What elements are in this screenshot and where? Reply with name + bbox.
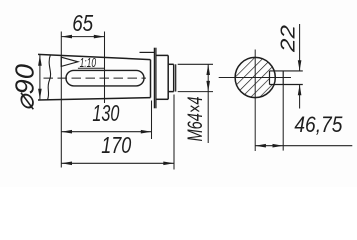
taper symbol triangle xyxy=(61,57,78,66)
shaft side view outline xyxy=(38,48,176,109)
thread top xyxy=(168,63,174,65)
arrow 22 down xyxy=(298,60,302,71)
thread dia extension bottom xyxy=(178,91,213,93)
svg-text:22: 22 xyxy=(277,25,299,53)
arrow M64 down xyxy=(206,81,210,92)
keyway top edge + extension xyxy=(270,70,303,72)
arrow 46,75 left xyxy=(255,144,266,148)
dim 22 line upper xyxy=(299,24,301,71)
centerline vertical end view xyxy=(254,50,256,152)
taper underline xyxy=(78,67,105,69)
wire: step line above washer xyxy=(140,51,155,53)
thread dia extension top xyxy=(178,63,213,65)
dim 22 line lower xyxy=(299,85,301,109)
extension 46,75 keyway edge down xyxy=(282,85,284,151)
washer disc xyxy=(153,48,155,109)
wire: break line xyxy=(48,55,51,100)
arrow 130 right xyxy=(141,130,152,134)
arrow 22 up xyxy=(298,85,302,96)
keyway slot on cone xyxy=(44,70,147,86)
centerline horizontal end view xyxy=(219,77,291,79)
wire: cone end face xyxy=(150,60,152,98)
dim line 130 xyxy=(61,131,151,133)
arrow phi90 down xyxy=(38,89,42,100)
nut section bottom xyxy=(156,98,168,100)
extension 130 right xyxy=(151,101,153,140)
arrow 170 left xyxy=(61,162,72,166)
arrow 65 right xyxy=(94,35,105,39)
arrow 65 left xyxy=(61,35,72,39)
arrow 46,75 right xyxy=(273,144,284,148)
arrow M64 up xyxy=(206,64,210,75)
svg-text:130: 130 xyxy=(92,100,119,126)
extension 170 right xyxy=(173,95,175,170)
nut section top xyxy=(156,54,168,56)
dim line phi90 xyxy=(39,55,41,99)
svg-text:1:10: 1:10 xyxy=(80,56,97,70)
end view circle hatched xyxy=(235,57,275,97)
arrows left view xyxy=(38,35,210,165)
wire: cone bottom edge xyxy=(38,98,151,100)
dim line 65 xyxy=(61,36,104,38)
keyway hidden dashed line xyxy=(44,77,147,79)
end view circle outline xyxy=(235,57,275,97)
svg-text:46,75: 46,75 xyxy=(294,112,342,137)
chamfer line xyxy=(175,64,177,91)
keyway slot outline xyxy=(66,70,144,86)
keyway bottom edge + extension xyxy=(270,84,303,86)
nut right face xyxy=(167,55,169,99)
wire: cone top edge xyxy=(38,54,151,59)
end face xyxy=(173,64,175,91)
keyway rect outline xyxy=(270,71,284,85)
dim line 46,75 xyxy=(255,145,352,147)
arrow phi90 up xyxy=(38,55,42,66)
M64 dim vertical with tail xyxy=(207,64,209,143)
extension line 65 right xyxy=(104,32,106,104)
svg-text:170: 170 xyxy=(101,132,131,158)
keyway profile rect white xyxy=(270,71,284,85)
extension line at big-end plane xyxy=(60,32,62,168)
svg-text:M64×4: M64×4 xyxy=(184,97,207,142)
svg-text:65: 65 xyxy=(72,10,93,36)
dim line 170 xyxy=(61,162,174,164)
thin dimension lines xyxy=(40,32,213,170)
svg-text:⌀90: ⌀90 xyxy=(12,64,40,111)
arrow 130 left xyxy=(61,130,72,134)
thread bottom xyxy=(168,91,174,93)
arrow 170 right xyxy=(163,162,174,166)
